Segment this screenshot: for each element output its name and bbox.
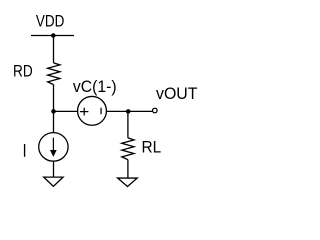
wire VDD rail to RD top xyxy=(53,36,55,63)
ground (left) xyxy=(44,177,63,186)
junction dot on VDD rail xyxy=(51,33,56,38)
svg-text:vC(1-): vC(1-) xyxy=(73,78,117,96)
label I xyxy=(24,144,25,157)
svg-text:vOUT: vOUT xyxy=(156,85,198,103)
voltage source vC(1-) xyxy=(78,96,107,125)
svg-text:VDD: VDD xyxy=(36,12,65,30)
svg-text:RD: RD xyxy=(13,63,33,81)
svg-text:RL: RL xyxy=(142,139,162,157)
node A junction dot xyxy=(51,109,56,114)
ground (right) xyxy=(118,178,138,186)
resistor RD xyxy=(48,63,60,85)
wire current source to ground xyxy=(53,161,55,177)
terminal vOUT xyxy=(153,108,158,113)
wire RL to ground xyxy=(127,160,129,178)
node B junction dot xyxy=(126,109,131,114)
wire voltage source to node B and terminal xyxy=(106,110,152,112)
wire node B to RL xyxy=(127,111,129,137)
resistor RL xyxy=(122,138,134,160)
wire node A to voltage source xyxy=(54,110,78,112)
current source I xyxy=(39,133,68,162)
wire RD bottom through node A to current source xyxy=(53,85,55,133)
power rail VDD xyxy=(31,35,74,37)
